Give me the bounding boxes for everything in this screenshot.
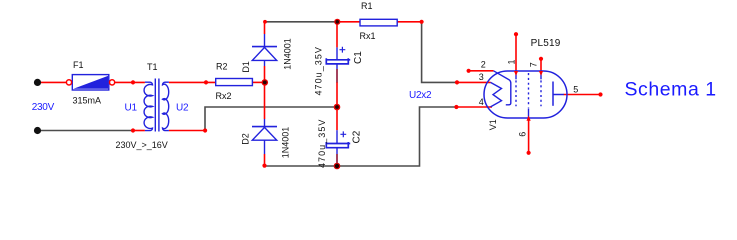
svg-text:Rx1: Rx1: [360, 31, 376, 41]
svg-text:315mA: 315mA: [73, 96, 102, 106]
svg-text:F1: F1: [73, 60, 84, 70]
svg-text:1: 1: [507, 59, 517, 64]
svg-text:V1: V1: [488, 119, 498, 130]
svg-text:2: 2: [481, 60, 486, 70]
svg-text:4: 4: [479, 97, 484, 107]
svg-text:5: 5: [573, 85, 578, 95]
svg-text:T1: T1: [147, 62, 158, 72]
svg-text:6: 6: [518, 132, 528, 137]
svg-text:C1: C1: [353, 51, 364, 64]
svg-text:R1: R1: [361, 1, 373, 11]
svg-text:U2: U2: [176, 102, 189, 113]
svg-text:PL519: PL519: [531, 38, 561, 49]
svg-text:C2: C2: [351, 130, 362, 143]
svg-text:1N4001: 1N4001: [282, 38, 292, 70]
svg-text:D2: D2: [241, 133, 251, 145]
svg-text:230V: 230V: [32, 102, 55, 113]
svg-text:7: 7: [529, 62, 539, 67]
svg-text:1N4001: 1N4001: [281, 127, 291, 159]
svg-text:Schema 1: Schema 1: [625, 78, 717, 100]
svg-text:470u_35V: 470u_35V: [317, 119, 327, 168]
svg-text:U2x2: U2x2: [409, 90, 432, 101]
svg-text:230V_>_16V: 230V_>_16V: [116, 140, 168, 150]
svg-text:U1: U1: [125, 102, 138, 113]
svg-text:Rx2: Rx2: [216, 91, 232, 101]
svg-text:3: 3: [479, 72, 484, 82]
svg-text:470u_35V: 470u_35V: [314, 46, 324, 95]
svg-text:R2: R2: [216, 62, 228, 72]
svg-text:D1: D1: [241, 61, 251, 73]
